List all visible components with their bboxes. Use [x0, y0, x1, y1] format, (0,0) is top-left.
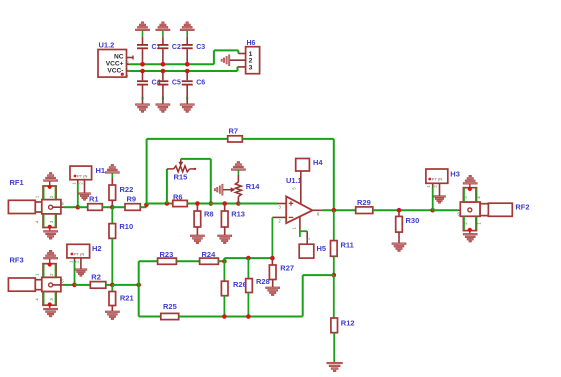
- RF2 pin 5 lead: [458, 209, 468, 211]
- wire divider left riser: [138, 261, 140, 316]
- svg-text:RF3: RF3: [10, 256, 24, 265]
- junction R21: [110, 283, 115, 288]
- wire H3 pin 1 riser: [432, 188, 434, 211]
- junction R28 bottom: [246, 314, 251, 319]
- junction H1 on input net: [76, 205, 81, 210]
- svg-text:PT (N: PT (N: [74, 252, 84, 257]
- junction C2 on VCC+ rail: [161, 62, 166, 67]
- svg-text:R8: R8: [204, 210, 214, 219]
- ground below R8: [190, 235, 204, 237]
- ground below R30: [392, 243, 406, 245]
- resistor R8: [196, 204, 198, 212]
- connector H1: [70, 166, 92, 180]
- connector H6: [246, 47, 260, 74]
- svg-text:R2: R2: [91, 273, 101, 282]
- svg-text:R13: R13: [231, 210, 245, 219]
- svg-text:RF1: RF1: [10, 178, 24, 187]
- ground below R21: [105, 311, 119, 313]
- capacitor C1: [142, 31, 144, 37]
- trimmer R14: [237, 170, 239, 175]
- svg-text:C2: C2: [172, 44, 181, 51]
- connector H3: [426, 169, 448, 183]
- svg-text:R22: R22: [120, 185, 134, 194]
- wire R9 to mid junction: [140, 206, 146, 208]
- wire pin1 to H5: [299, 230, 301, 237]
- wire to RF2: [433, 209, 458, 211]
- wire feedback rail right riser: [333, 139, 335, 210]
- svg-text:H5: H5: [317, 244, 327, 253]
- wire VCC+ rail top run: [214, 49, 239, 51]
- wire RF3 to H2 junction: [64, 284, 75, 286]
- RF1 ground: [49, 227, 51, 231]
- junction R26 bottom: [222, 314, 227, 319]
- junction R22/R10: [110, 205, 115, 210]
- svg-text:R7: R7: [229, 127, 239, 136]
- capacitor C5: [162, 71, 164, 80]
- VCC supply above R14: [231, 169, 245, 171]
- wire R21 to ground: [111, 306, 113, 312]
- RF2 bottom shield stub: [463, 216, 476, 230]
- resistor R30: [398, 210, 400, 216]
- svg-text:C6: C6: [196, 80, 205, 87]
- wire R13 to ground: [224, 227, 226, 235]
- resistor R28: [247, 258, 249, 279]
- RF3 ground: [49, 305, 51, 309]
- capacitor C4: [142, 71, 144, 80]
- RF1 top earth symbol: [44, 180, 58, 182]
- wire bottom row: [179, 316, 303, 318]
- ground below C4: [136, 104, 150, 106]
- svg-text:PT (N: PT (N: [77, 174, 87, 179]
- junction feedback bottom: [332, 273, 337, 278]
- op-amp power block U1.2: [98, 50, 127, 78]
- VCC supply symbol above C3: [180, 29, 194, 31]
- svg-text:H4: H4: [313, 158, 323, 167]
- wire junction to R9: [112, 206, 125, 208]
- wire R30 to ground: [398, 232, 400, 243]
- U1.1 pin 6 (output): [313, 209, 322, 211]
- RF3 top earth symbol: [44, 258, 58, 260]
- wire R27 to ground: [272, 280, 274, 288]
- wire VCC+ rail riser to H6: [213, 50, 215, 64]
- ground at H2: [75, 269, 87, 271]
- wire R11 to junction: [333, 256, 335, 275]
- svg-text:3: 3: [249, 64, 253, 71]
- junction H3: [430, 208, 435, 213]
- H5 pin lead: [306, 231, 308, 244]
- capacitor C3: [186, 31, 188, 37]
- wire R29 to R30 junction: [373, 209, 433, 211]
- H3 pin 2 lead to ground: [439, 183, 441, 195]
- svg-text:H6: H6: [247, 40, 256, 47]
- wire R2 to junction: [106, 284, 113, 286]
- junction R26 top: [222, 259, 227, 264]
- wire top row jog: [223, 258, 225, 261]
- junction feedback rail: [144, 203, 149, 208]
- wire top row left: [139, 260, 158, 262]
- svg-text:U1.2: U1.2: [99, 41, 115, 50]
- U1.1 pin 3 (+ input): [277, 203, 286, 205]
- junction C6 on VCC- rail: [185, 69, 190, 74]
- wire R10 down to RF3 net: [111, 238, 113, 285]
- svg-text:H1: H1: [96, 166, 106, 175]
- svg-text:NC: NC: [114, 54, 124, 61]
- wire RF1 to H1 junction: [64, 206, 78, 208]
- svg-text:U1.1: U1.1: [286, 176, 302, 185]
- wire H2 to R2: [75, 284, 91, 286]
- H6 pin 1: [238, 53, 245, 55]
- resistor R10: [111, 207, 113, 223]
- svg-text:R15: R15: [174, 173, 188, 182]
- svg-text:PT (N: PT (N: [432, 177, 442, 182]
- svg-text:R25: R25: [163, 302, 177, 311]
- resistor R27: [271, 258, 273, 265]
- wire R1 to junction: [102, 206, 112, 208]
- VCC supply symbol above C2: [156, 29, 170, 31]
- U1.2 pin VCC- (pin 4): [127, 70, 132, 72]
- ground at H1: [79, 193, 91, 195]
- U1.1 pin 2 (- input): [272, 216, 286, 218]
- wire R8 to ground: [196, 227, 198, 235]
- RF2 ground: [469, 230, 471, 234]
- ground below C5: [156, 104, 170, 106]
- wire feedback rail top: [147, 138, 228, 140]
- svg-text:R1: R1: [89, 195, 99, 204]
- svg-text:R21: R21: [120, 294, 134, 303]
- svg-text:H2: H2: [92, 244, 102, 253]
- H1 pin 2 lead to ground: [84, 180, 86, 193]
- RF2 top shield stub: [463, 188, 476, 202]
- junction C4 on VCC- rail: [140, 69, 145, 74]
- ground below R27: [266, 287, 280, 289]
- ground below R12: [327, 362, 342, 364]
- wire VCC- rail riser to H6: [237, 67, 239, 71]
- svg-text:R29: R29: [357, 198, 371, 207]
- VCC supply above R22: [105, 172, 119, 174]
- wire feedback rail top right: [242, 138, 333, 140]
- wire bottom row riser: [302, 275, 304, 316]
- wire R12 to ground: [333, 333, 335, 363]
- trimmer R14 wiper arrow: [222, 189, 231, 191]
- wire R6 to R8: [187, 203, 238, 205]
- svg-text:R27: R27: [280, 263, 294, 272]
- wire op-amp output: [322, 209, 356, 211]
- wire VCC+ rail: [130, 63, 214, 65]
- wire mid net: [146, 203, 172, 205]
- wire mid net to op-amp: [238, 203, 277, 205]
- U1.2 pin VCC+ (pin 7): [127, 63, 132, 65]
- junction C5 on VCC- rail: [161, 69, 166, 74]
- resistor R13: [224, 204, 226, 212]
- U1.1 pin 5 (offset) to H4: [300, 171, 302, 204]
- H6 pin 2: [229, 59, 245, 61]
- svg-text:H3: H3: [450, 170, 460, 179]
- wire feedback rail left riser: [146, 139, 148, 204]
- capacitor C6: [186, 71, 188, 80]
- junction R30: [397, 208, 402, 213]
- wire junction to divider: [112, 284, 138, 286]
- svg-text:R14: R14: [246, 182, 261, 191]
- junction output/feedback: [332, 208, 337, 213]
- VCC supply symbol above C1: [136, 29, 150, 31]
- H6 pin 3: [238, 66, 246, 68]
- svg-text:R10: R10: [119, 222, 133, 231]
- trimmer R15 wiper arrow: [180, 159, 182, 163]
- wire R15 wiper top: [181, 158, 211, 160]
- U1.2 pin NC (pin 8): [127, 57, 134, 59]
- junction C3 on VCC+ rail: [185, 62, 190, 67]
- H2 pin 1 lead: [74, 258, 76, 262]
- junction C1 on VCC+ rail: [140, 62, 145, 67]
- wire R23 to R24: [176, 260, 199, 262]
- junction divider left: [136, 283, 141, 288]
- chassis ground at H6 pin 2: [229, 55, 230, 66]
- wire bottom row left: [139, 316, 161, 318]
- capacitor C2: [162, 31, 164, 37]
- wire R15 right riser: [210, 159, 212, 204]
- wire VCC- rail: [130, 70, 238, 72]
- junction R28 top: [246, 256, 251, 261]
- svg-text:R30: R30: [406, 216, 420, 225]
- wire junction down to R12: [333, 275, 335, 318]
- svg-text:R12: R12: [341, 319, 355, 328]
- RF3 pin 5 lead: [53, 284, 64, 286]
- svg-text:R11: R11: [341, 241, 354, 250]
- junction R15 right: [209, 201, 214, 206]
- H2 pin 2 lead to ground: [80, 258, 82, 269]
- RF3 top shield stub: [43, 264, 56, 278]
- RF3 bottom shield stub: [43, 292, 56, 306]
- ground at H3: [434, 196, 446, 198]
- wire - input riser to feedback: [271, 217, 273, 258]
- wire bottom row to R11 node: [303, 274, 334, 276]
- RF1 bottom shield stub: [43, 214, 56, 228]
- ground below R13: [218, 235, 232, 237]
- svg-text:R26: R26: [233, 280, 247, 289]
- connector H5: [299, 244, 314, 258]
- svg-text:RF2: RF2: [515, 203, 529, 212]
- junction R14: [236, 201, 241, 206]
- junction H2 on RF3 net: [72, 283, 77, 288]
- junction R27 top / feedback: [270, 256, 275, 261]
- RF1 pin 5 lead: [53, 206, 64, 208]
- junction R15 left: [165, 201, 170, 206]
- RF2 top earth symbol: [463, 183, 477, 185]
- trimmer R15 left riser: [166, 169, 168, 204]
- svg-text:R28: R28: [256, 277, 270, 286]
- resistor R21: [111, 285, 113, 292]
- resistor R26: [223, 261, 225, 281]
- ground below C6: [180, 104, 194, 106]
- chassis ground at R14 wiper: [222, 184, 223, 195]
- wire output node down to R11: [333, 210, 335, 240]
- junction R8: [195, 201, 200, 206]
- RF1 top shield stub: [43, 186, 56, 200]
- svg-text:C3: C3: [196, 44, 205, 51]
- junction R13: [222, 201, 227, 206]
- resistor R22: [111, 173, 113, 178]
- wire R24 to junction: [218, 260, 224, 262]
- connector H2: [67, 244, 90, 258]
- connector H4: [296, 159, 310, 172]
- wire H1 to R1: [78, 206, 88, 208]
- svg-text:C5: C5: [172, 80, 181, 87]
- U1.1 pin 1 (offset): [299, 217, 301, 231]
- H1 pin 1 lead: [77, 180, 79, 184]
- svg-text:R9: R9: [127, 195, 137, 204]
